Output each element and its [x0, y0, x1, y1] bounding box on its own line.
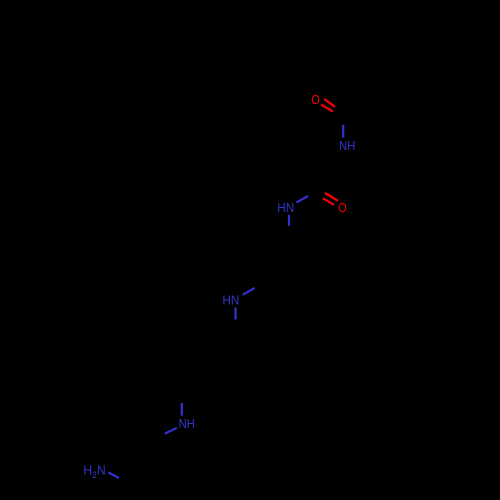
svg-text:NH: NH	[339, 138, 356, 153]
svg-text:O: O	[311, 92, 320, 107]
svg-text:O: O	[338, 200, 347, 215]
svg-text:NH: NH	[178, 416, 195, 431]
svg-text:HN: HN	[222, 292, 239, 307]
svg-text:HN: HN	[277, 200, 294, 215]
